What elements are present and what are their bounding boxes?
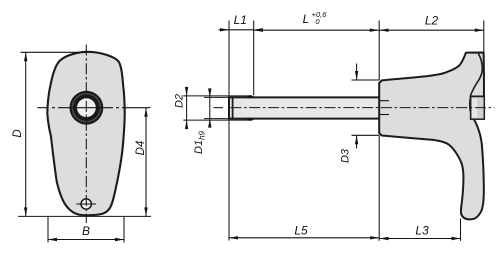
svg-text:D4: D4 <box>135 141 147 156</box>
svg-text:L2: L2 <box>425 14 439 28</box>
svg-text:D1h9: D1h9 <box>193 130 206 154</box>
svg-text:L1: L1 <box>234 13 247 27</box>
svg-text:L3: L3 <box>415 224 429 238</box>
svg-text:D3: D3 <box>340 148 352 163</box>
svg-text:L: L <box>303 12 310 26</box>
svg-text:B: B <box>82 224 90 238</box>
svg-text:D: D <box>12 129 24 137</box>
svg-text:L5: L5 <box>294 224 308 238</box>
svg-text:D2: D2 <box>174 94 186 108</box>
